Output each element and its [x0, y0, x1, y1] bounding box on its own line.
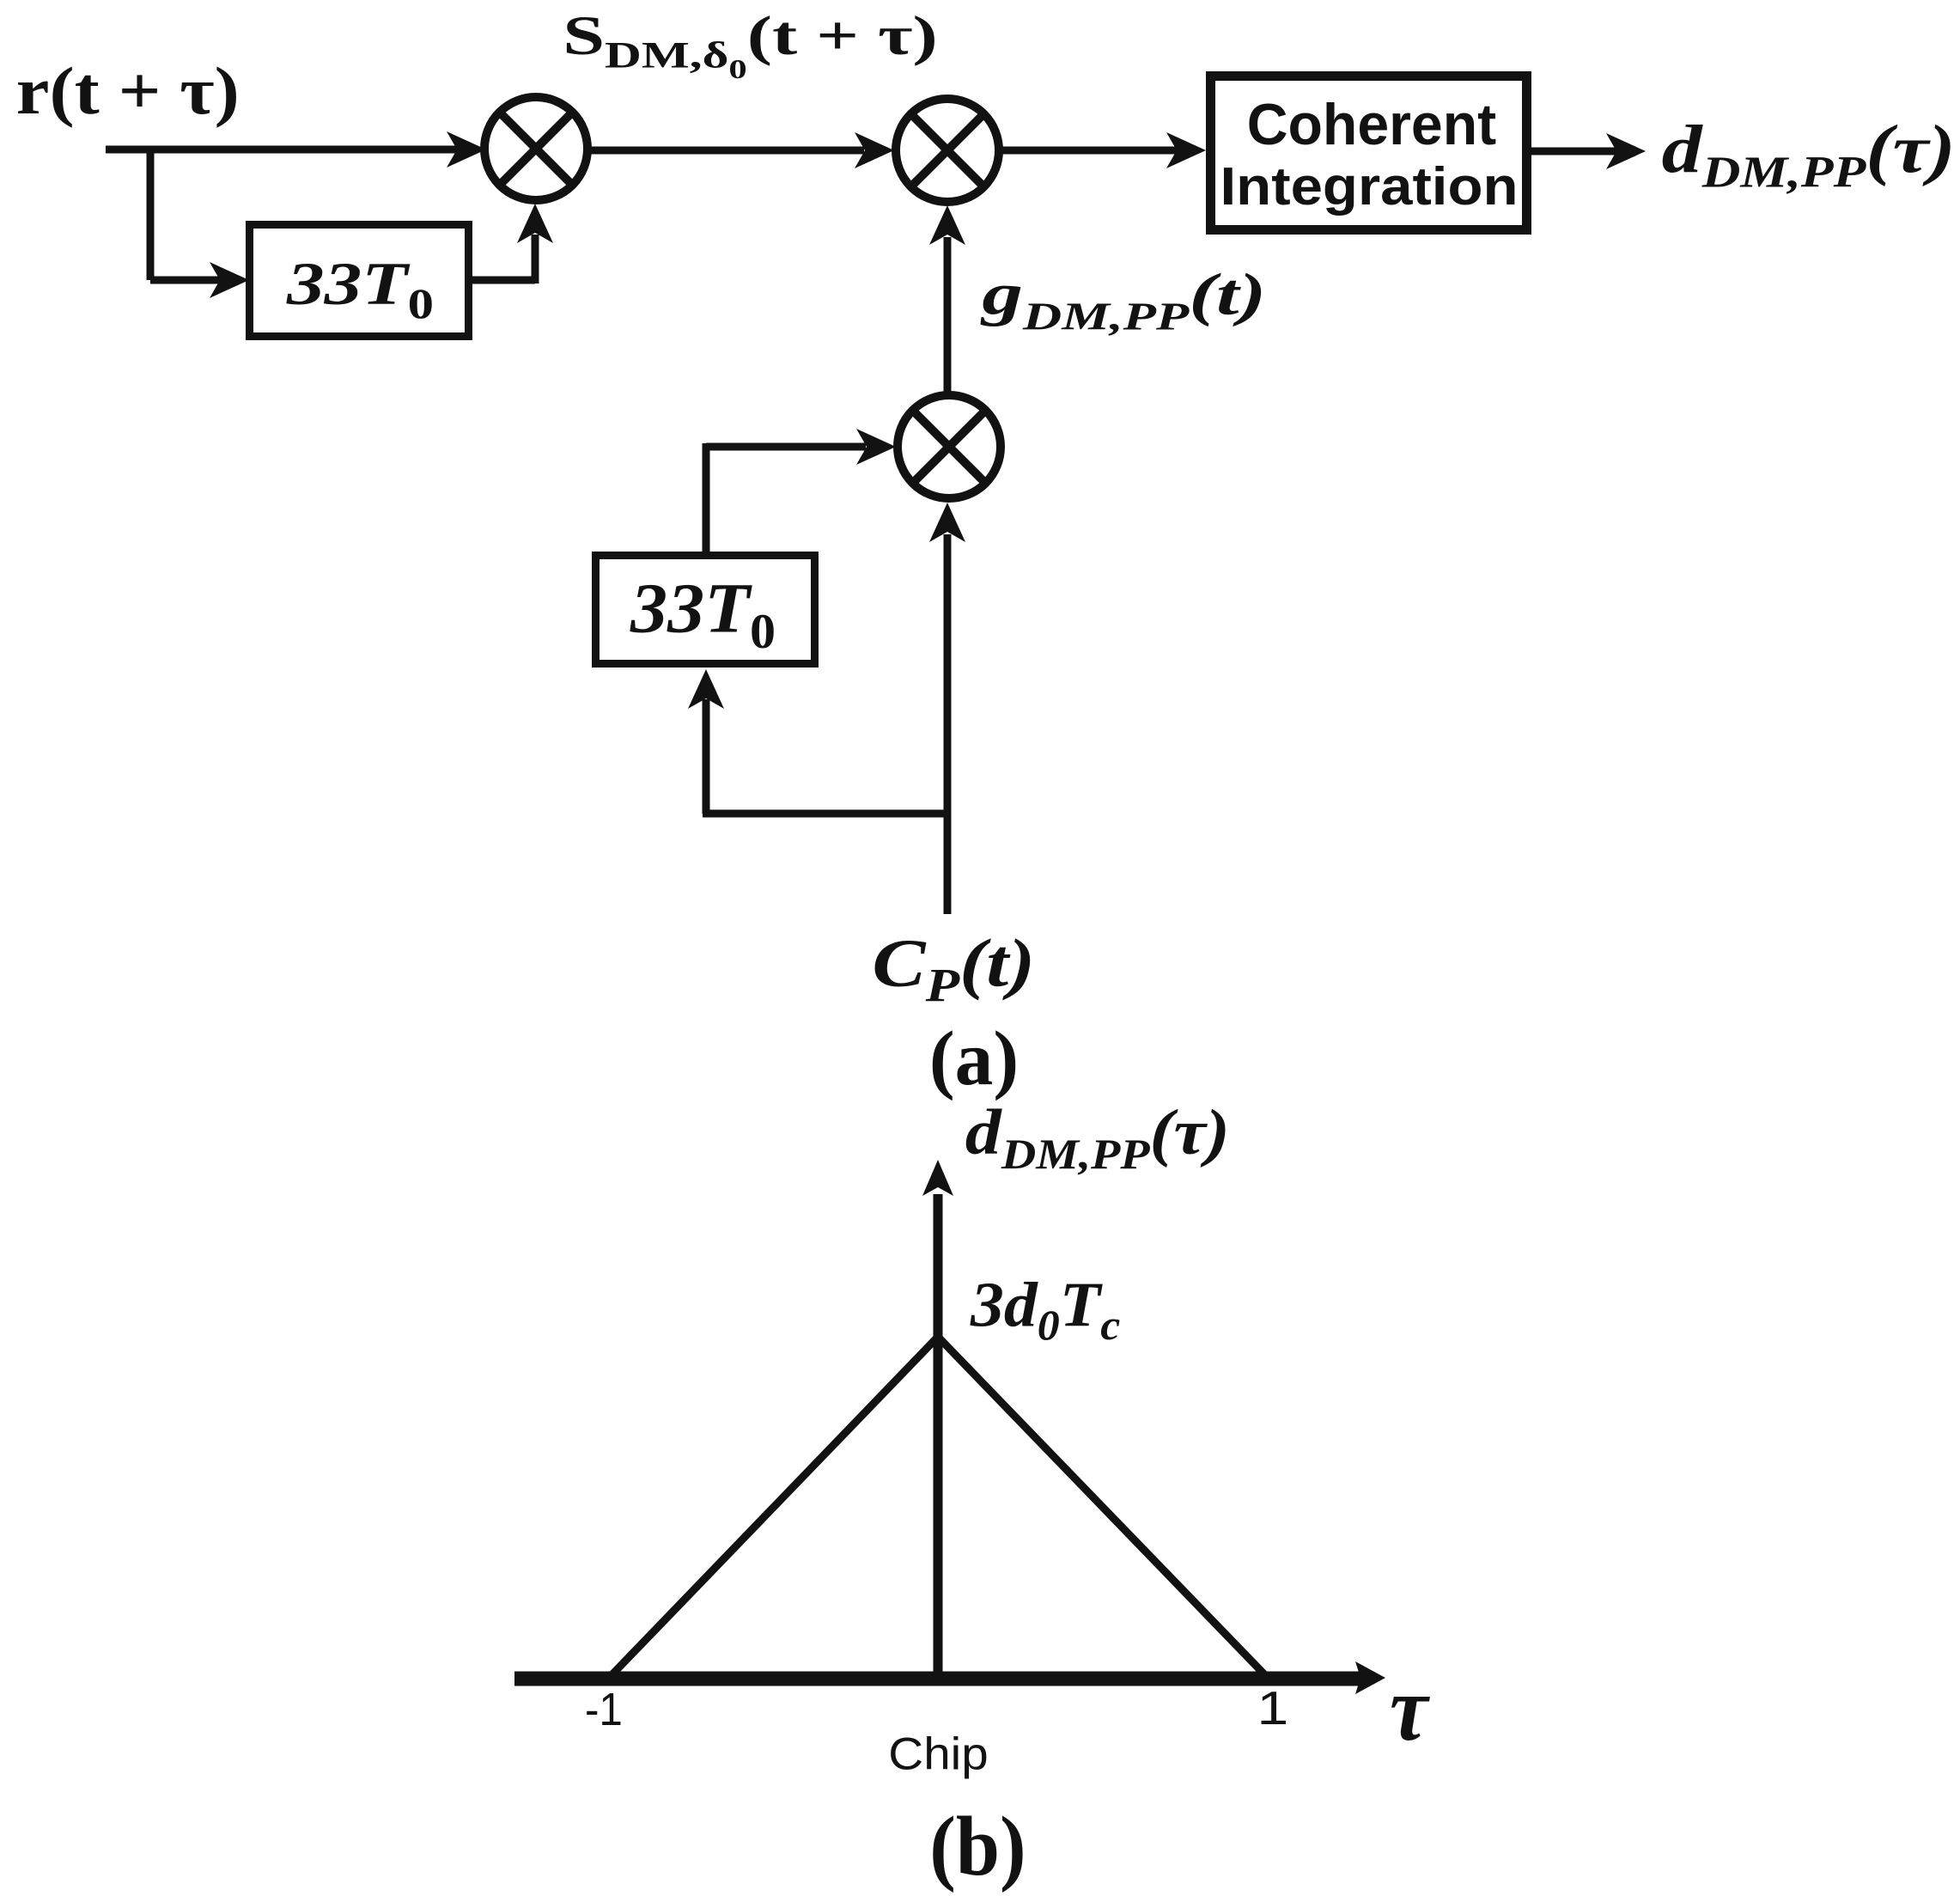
svg-text:Integration: Integration [1220, 155, 1519, 216]
svg-text:τ: τ [1390, 1656, 1430, 1760]
svg-text:-1: -1 [585, 1683, 623, 1734]
svg-text:Coherent: Coherent [1247, 92, 1496, 157]
svg-text:(a): (a) [929, 1016, 1019, 1101]
svg-text:(b): (b) [929, 1799, 1026, 1893]
svg-text:1: 1 [1257, 1681, 1289, 1734]
svg-text:Chip: Chip [888, 1728, 988, 1779]
svg-text:r(t + τ): r(t + τ) [16, 53, 240, 128]
